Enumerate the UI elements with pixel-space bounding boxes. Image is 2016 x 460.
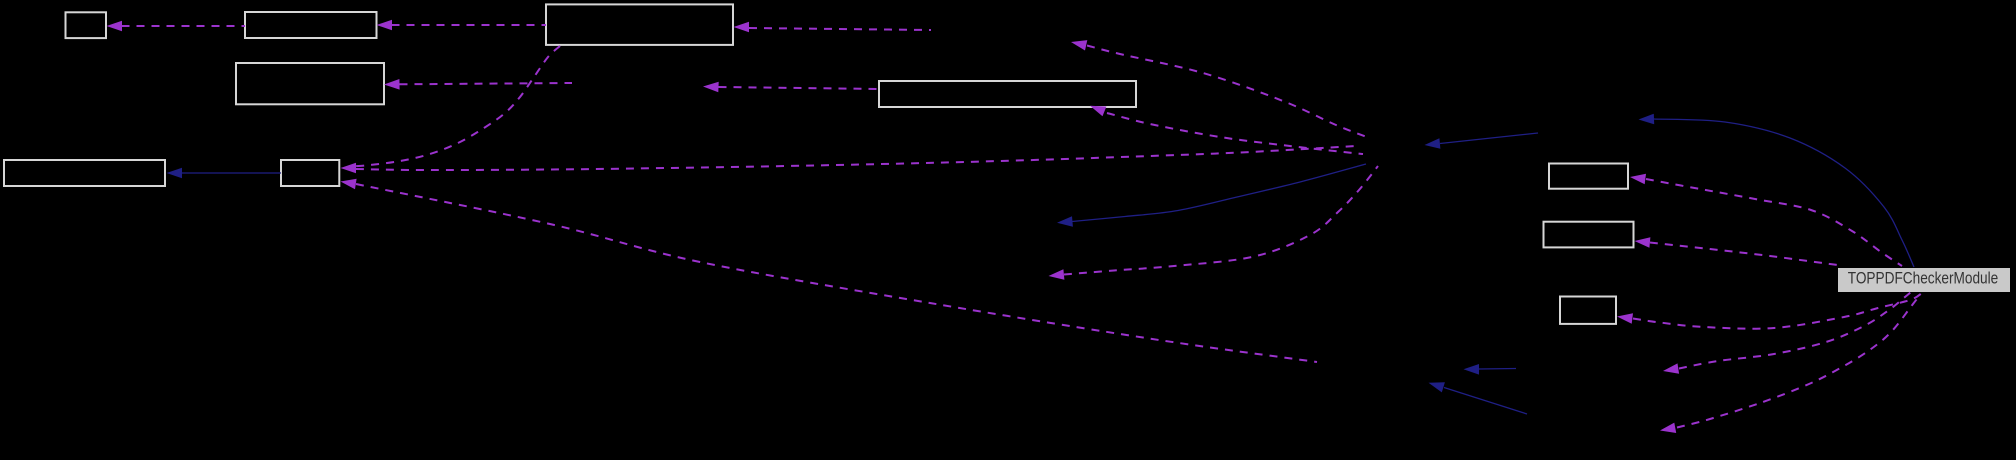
- svg-text:TOPPDFCheckerModule: TOPPDFCheckerModule: [1848, 269, 1999, 287]
